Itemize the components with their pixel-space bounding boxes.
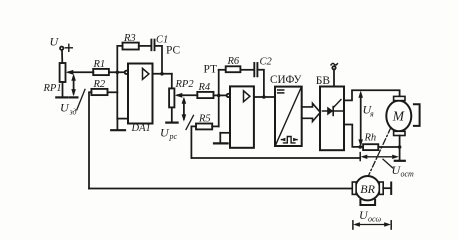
svg-text:М: М — [392, 108, 405, 123]
svg-text:RP1: RP1 — [43, 83, 62, 94]
wire R4 to RT input — [214, 94, 227, 96]
wire BV bottom output — [344, 125, 360, 147]
junction dot — [358, 145, 362, 149]
wire R6 feedback vertical — [218, 70, 220, 127]
wire C2 to RT output — [258, 70, 264, 97]
wire output to RP2 — [171, 74, 173, 89]
wiper arrow RP2 — [178, 94, 198, 96]
svg-text:U: U — [50, 35, 60, 49]
svg-text:R6: R6 — [227, 56, 240, 67]
potentiometer RP2 — [169, 88, 174, 107]
wire R2 right — [108, 91, 118, 93]
capacitor C2 — [253, 63, 255, 76]
ground RP2 — [166, 121, 177, 123]
resistor R1 — [93, 69, 109, 75]
motor M — [386, 101, 411, 132]
wire R3 to C1 — [139, 45, 151, 47]
pulse symbol SIFU — [282, 137, 298, 143]
wire R5 right — [212, 125, 219, 127]
wire RT output — [254, 96, 275, 98]
svg-text:R4: R4 — [198, 82, 211, 93]
ground DA1 — [116, 119, 118, 130]
op-amp DA1 — [128, 64, 153, 124]
arrow Uost — [359, 153, 361, 161]
svg-text:DA1: DA1 — [131, 123, 151, 134]
svg-text:я: я — [369, 110, 374, 119]
wire R6 left — [219, 69, 226, 71]
resistor R6 — [226, 66, 241, 72]
junction dot — [398, 145, 402, 149]
potentiometer RP1 — [60, 63, 66, 82]
label plus — [65, 47, 72, 49]
wire BV top output to motor — [344, 90, 400, 100]
svg-text:U: U — [160, 126, 170, 140]
svg-text:Rh: Rh — [364, 133, 377, 144]
AC terminal — [331, 63, 337, 65]
wire current feedback rail — [191, 157, 360, 159]
wire R6 to C2 — [240, 69, 253, 71]
resistor R4 — [197, 92, 213, 98]
junction dot — [160, 72, 164, 76]
motor terminal bracket — [414, 104, 420, 126]
thyristor — [322, 110, 343, 112]
mechanical coupling dash-dot — [368, 128, 391, 177]
ground RP1 — [56, 96, 67, 98]
tachogenerator BR — [355, 176, 379, 200]
svg-text:ост: ост — [401, 170, 415, 179]
svg-text:R3: R3 — [123, 33, 136, 44]
svg-text:RP2: RP2 — [175, 79, 195, 90]
block BV — [320, 87, 344, 151]
resistor R3 — [123, 43, 139, 50]
junction dot — [116, 71, 120, 75]
wire R5 left to current rail — [191, 126, 196, 158]
wire motor bottom — [399, 136, 401, 161]
wire RT lower input — [220, 132, 230, 134]
ground RT — [219, 133, 221, 143]
terminal U — [60, 47, 63, 50]
arrow Urc — [183, 100, 185, 119]
svg-text:R2: R2 — [93, 79, 106, 90]
capacitor C1 — [150, 40, 152, 51]
wire speed feedback rail — [89, 188, 352, 190]
junction dot — [217, 94, 221, 98]
svg-text:СИФУ: СИФУ — [270, 74, 302, 86]
resistor R2 — [91, 89, 107, 95]
svg-text:осω: осω — [368, 215, 382, 224]
wire DA1 lower input — [117, 118, 128, 120]
resistor Rh — [360, 146, 363, 148]
svg-text:РТ: РТ — [204, 63, 218, 75]
svg-text:РС: РС — [166, 45, 181, 57]
wire R3 left to input node — [117, 46, 122, 119]
wiper arrow RP1 — [69, 71, 94, 73]
op-amp RT — [230, 86, 254, 147]
BR bottom bracket — [360, 200, 375, 205]
svg-text:BR: BR — [360, 182, 375, 196]
svg-text:зд: зд — [69, 108, 77, 117]
wire R2 left to bottom rail — [89, 92, 91, 188]
svg-text:U: U — [60, 101, 70, 115]
arrow Uosw — [356, 224, 388, 226]
arrow Uya — [360, 94, 362, 144]
block SIFU — [275, 87, 302, 146]
svg-text:рс: рс — [169, 132, 178, 141]
svg-text:C2: C2 — [260, 57, 273, 68]
wire C1 to output node — [155, 46, 162, 74]
output block-arrow SIFU to BV — [302, 103, 321, 121]
svg-text:R1: R1 — [93, 59, 106, 70]
resistor R5 — [196, 124, 212, 130]
arrow Uzd — [73, 77, 75, 94]
wire R1 to DA1 input — [109, 71, 125, 73]
svg-text:БВ: БВ — [316, 75, 331, 87]
junction dot — [262, 95, 266, 99]
wire DA1 output — [153, 73, 172, 75]
BR right terminal — [383, 187, 391, 189]
svg-text:R5: R5 — [198, 114, 211, 125]
